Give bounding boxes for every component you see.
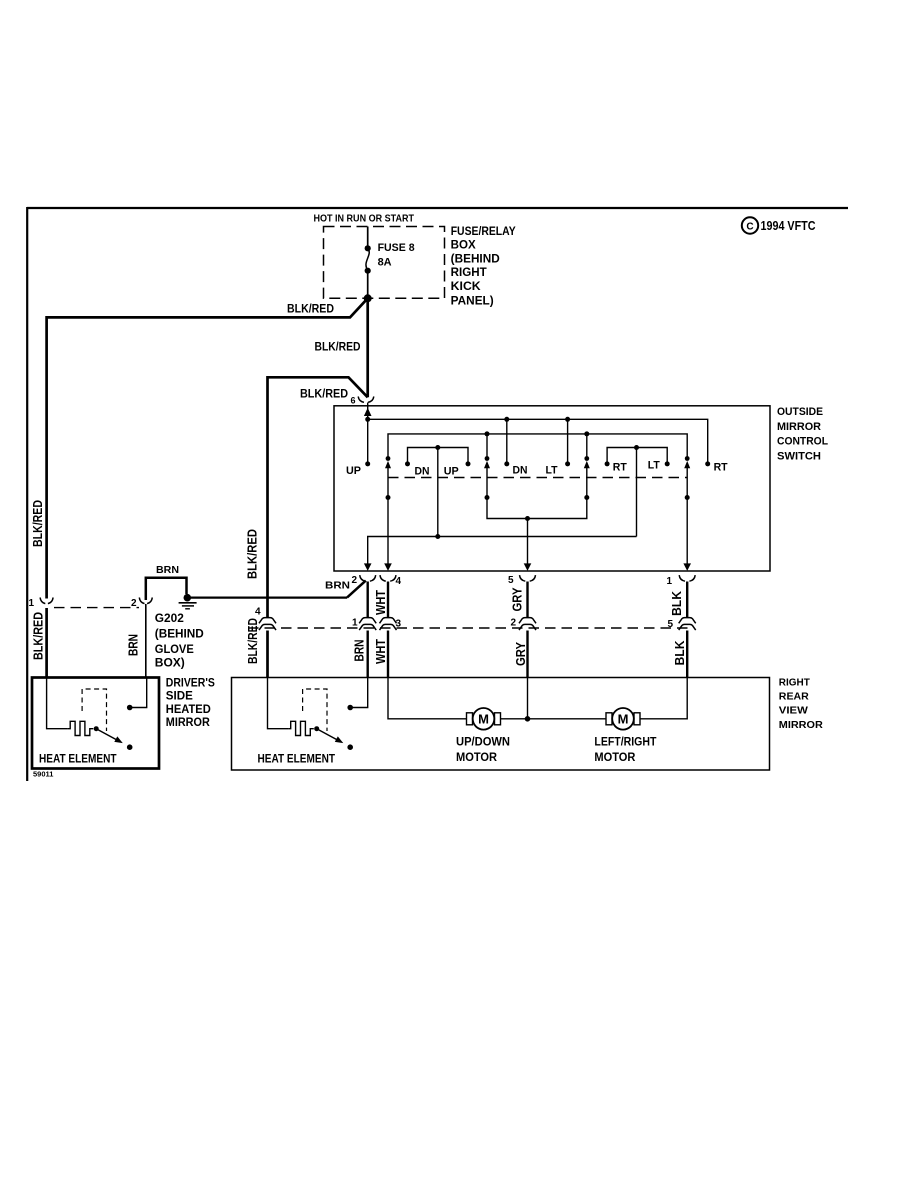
svg-text:BRN: BRN [127, 634, 141, 656]
wire pin2 bus [368, 537, 637, 565]
wire pin1 down [686, 498, 688, 565]
svg-text:WHT: WHT [374, 590, 388, 615]
svg-text:GLOVE: GLOVE [155, 642, 194, 656]
svg-text:RIGHT: RIGHT [451, 267, 487, 279]
svg-text:(BEHIND: (BEHIND [451, 253, 500, 265]
node tap LT [565, 417, 570, 422]
svg-text:BRN: BRN [353, 640, 367, 662]
wire BLK to motor2 [640, 678, 687, 719]
label RIGHT REAR VIEW MIRROR [779, 676, 823, 731]
svg-text:2: 2 [511, 618, 517, 629]
switch arm (driver) [96, 729, 116, 740]
svg-text:RT: RT [613, 462, 627, 474]
svg-text:MIRROR: MIRROR [777, 421, 821, 433]
switch contact dot (driver) [127, 744, 133, 750]
node pole tap 2 [485, 431, 490, 436]
connector 6 (switch feed) [358, 397, 374, 403]
switch pivot (right) [314, 726, 319, 731]
svg-text:MOTOR: MOTOR [456, 750, 497, 764]
wire pole tap 2 [486, 434, 488, 459]
wire tap to DN contact [506, 419, 508, 462]
switch pivot (driver) [94, 726, 99, 731]
pole junction nodes below dashed [386, 495, 391, 500]
svg-text:1: 1 [29, 598, 35, 609]
wires row2 to mirror box [266, 631, 269, 678]
feed arrow (up) inside switch [364, 408, 372, 416]
contact LT (tap) [565, 461, 570, 466]
svg-text:BLK: BLK [673, 641, 687, 666]
svg-text:HEAT ELEMENT: HEAT ELEMENT [39, 752, 117, 766]
motor M1 up/down [467, 708, 501, 730]
svg-text:BLK/RED: BLK/RED [300, 387, 348, 401]
contact RT (right end) [705, 461, 710, 466]
node tap DN [504, 417, 509, 422]
wire between motors [501, 718, 607, 720]
motor M2 left/right [606, 708, 640, 730]
wire feed rail (line1) [368, 419, 708, 462]
driver side heated mirror box [32, 678, 159, 769]
mirror connector row (dashed) [248, 627, 690, 629]
label G202 (BEHIND GLOVE BOX) [155, 611, 204, 670]
svg-text:BLK/RED: BLK/RED [287, 302, 334, 316]
wire BRN terminal (right) [353, 678, 368, 708]
svg-text:BOX: BOX [451, 240, 476, 252]
page border left [26, 207, 28, 781]
svg-text:FUSE/RELAY: FUSE/RELAY [451, 226, 516, 238]
OUTSIDE MIRROR CONTROL SWITCH box [334, 406, 770, 571]
wire UP feed to contact [367, 419, 369, 462]
svg-text:CONTROL: CONTROL [777, 436, 828, 448]
svg-text:MIRROR: MIRROR [779, 719, 823, 731]
wire feed inside driver box [47, 678, 68, 729]
label FUSE/RELAY BOX (BEHIND RIGHT KICK PANEL) [451, 226, 516, 308]
label DRIVER'S SIDE HEATED MIRROR [166, 678, 215, 730]
fuse/relay box (dashed) [324, 227, 445, 299]
connector pin 2 (driver mirror) [139, 598, 152, 604]
bracket RT-LT [607, 448, 667, 462]
bracket DN-UP [408, 448, 469, 462]
svg-text:M: M [618, 712, 629, 727]
svg-text:1: 1 [352, 618, 358, 629]
svg-text:BOX): BOX) [155, 656, 185, 670]
svg-text:BLK/RED: BLK/RED [31, 500, 45, 547]
svg-text:LT: LT [648, 460, 660, 472]
wire BLK/RED main vertical (thick) [366, 298, 369, 397]
svg-text:2: 2 [131, 598, 137, 609]
wire BLK/RED second branch to right mirror (thick) [268, 377, 368, 617]
wire pole tap 3 [586, 434, 588, 459]
svg-text:OUTSIDE: OUTSIDE [777, 406, 823, 418]
svg-text:8A: 8A [378, 257, 392, 269]
svg-text:1994 VFTC: 1994 VFTC [761, 219, 816, 233]
heat element resistor (driver) [68, 721, 93, 735]
right rear view mirror box [232, 678, 770, 771]
svg-text:BRN: BRN [325, 580, 350, 592]
wire into switch box [367, 403, 369, 420]
svg-text:LT: LT [546, 464, 558, 476]
wire BLK/RED left branch to driver side (thick) [47, 298, 368, 598]
page border top [27, 207, 848, 209]
wire BLK/RED below connector to driver box [45, 608, 48, 678]
svg-text:DN: DN [415, 465, 430, 477]
svg-text:HEATED: HEATED [166, 704, 211, 716]
switch connector pins row [360, 575, 696, 581]
node GRY junction [525, 716, 531, 722]
svg-text:4: 4 [255, 607, 261, 618]
svg-text:VIEW: VIEW [779, 705, 808, 717]
svg-text:5: 5 [508, 575, 514, 586]
wire BRN below connector 2 to driver box [145, 604, 147, 678]
wire tap to LT contact [567, 419, 569, 462]
svg-text:BRN: BRN [156, 564, 179, 576]
svg-text:DRIVER'S: DRIVER'S [166, 678, 215, 690]
svg-text:2: 2 [352, 575, 358, 586]
svg-text:BLK/RED: BLK/RED [315, 340, 361, 354]
svg-text:BLK: BLK [670, 591, 684, 616]
ground G202 [179, 594, 197, 609]
connector pins row2 [259, 618, 696, 631]
heat element dashed enclosure (right) [303, 689, 327, 731]
wire bracket A center down [437, 448, 439, 537]
svg-text:UP/DOWN: UP/DOWN [456, 735, 510, 749]
svg-text:5: 5 [668, 619, 674, 630]
svg-text:UP: UP [444, 465, 459, 477]
switch arm (right) [317, 729, 337, 740]
wire BRN ground run [347, 581, 366, 598]
svg-text:WHT: WHT [374, 639, 388, 664]
dashed mechanical link [388, 477, 687, 479]
svg-text:59011: 59011 [33, 770, 53, 779]
connector pin 1 (driver mirror) [40, 598, 53, 604]
svg-text:BLK/RED: BLK/RED [32, 612, 46, 660]
svg-text:GRY: GRY [514, 641, 528, 666]
svg-text:M: M [478, 712, 489, 727]
svg-text:DN: DN [513, 465, 528, 477]
label OUTSIDE MIRROR CONTROL SWITCH [777, 406, 828, 462]
svg-text:RIGHT: RIGHT [779, 676, 811, 688]
wires row1 to row2 (WHT GRY BLK BRN) [367, 582, 369, 618]
svg-text:(BEHIND: (BEHIND [155, 627, 204, 641]
wire pin4 down [387, 498, 389, 565]
wire GRY down [527, 678, 529, 719]
contact UP [365, 461, 370, 466]
svg-text:SWITCH: SWITCH [777, 450, 821, 462]
node: fuse output junction [364, 294, 372, 302]
svg-text:6: 6 [351, 396, 356, 406]
wire from box top to fuse [367, 227, 369, 249]
wire fuse to junction [367, 271, 369, 299]
svg-text:HEAT ELEMENT: HEAT ELEMENT [258, 752, 336, 766]
svg-text:HOT IN RUN OR START: HOT IN RUN OR START [314, 213, 415, 225]
svg-text:G202: G202 [155, 611, 184, 625]
svg-text:1: 1 [667, 576, 673, 587]
svg-text:GRY: GRY [511, 587, 525, 612]
output arrows (down) at box bottom [364, 563, 372, 571]
svg-text:BLK/RED: BLK/RED [246, 529, 260, 579]
svg-text:FUSE 8: FUSE 8 [378, 242, 415, 254]
wire BRN loop to ground [146, 578, 187, 600]
fuse F8 8A [365, 245, 371, 274]
svg-text:MIRROR: MIRROR [166, 717, 211, 729]
svg-text:REAR: REAR [779, 691, 809, 703]
wire pin5 bus [487, 498, 587, 519]
svg-text:3: 3 [396, 619, 402, 630]
svg-text:MOTOR: MOTOR [594, 750, 635, 764]
wire WHT to up/down motor [388, 678, 467, 719]
svg-text:C: C [746, 221, 753, 232]
copyright symbol [742, 217, 758, 233]
node on feed rail [365, 417, 370, 422]
svg-text:4: 4 [396, 576, 402, 587]
svg-text:UP: UP [346, 465, 361, 477]
svg-text:KICK: KICK [451, 281, 482, 293]
switch contact dot (right) [347, 744, 353, 750]
wire bracket B center down [636, 448, 638, 537]
switch poles: dot + up arrow + shaft [385, 456, 690, 497]
contact DN (tap) [504, 461, 509, 466]
heat element resistor (right) [288, 721, 313, 735]
heat element dashed enclosure (driver) [82, 689, 106, 731]
node pole tap 3 [584, 431, 589, 436]
svg-text:SIDE: SIDE [166, 691, 193, 703]
wire feed inside mirror box [268, 678, 289, 729]
wire BRN terminal (driver) [132, 678, 147, 708]
wire pole rail (line2) [388, 434, 687, 459]
svg-text:BLK/RED: BLK/RED [246, 618, 260, 664]
svg-text:RT: RT [714, 462, 728, 474]
dashed connector line (driver mirror) [54, 607, 139, 609]
svg-text:PANEL): PANEL) [451, 296, 494, 308]
svg-text:LEFT/RIGHT: LEFT/RIGHT [594, 735, 657, 749]
